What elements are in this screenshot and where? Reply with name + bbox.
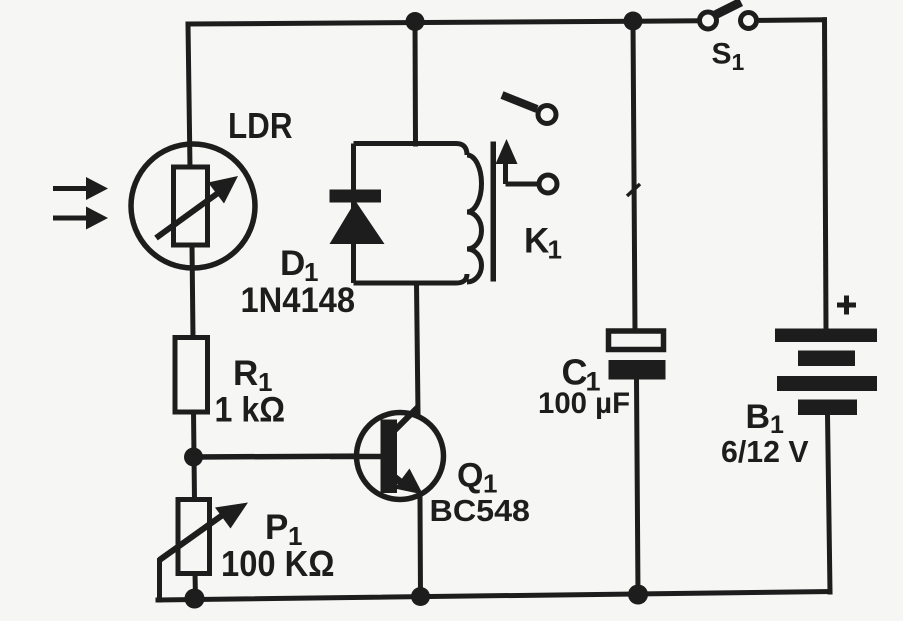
LDR body rect xyxy=(174,167,208,245)
relay K1 core bar xyxy=(491,142,497,282)
wire R1 to P1 xyxy=(194,411,195,500)
svg-text:B: B xyxy=(746,398,771,436)
node bottom rail / emitter xyxy=(411,587,430,606)
node top rail / relay branch xyxy=(406,12,425,31)
node top rail / C1 branch xyxy=(624,12,643,31)
wire C1 branch lower xyxy=(637,379,639,595)
wire bottom rail xyxy=(158,592,830,601)
P1 wiper tail wire xyxy=(160,558,163,600)
light arrow lower xyxy=(53,207,108,230)
D1 cathode bar xyxy=(330,190,382,203)
wire box left (diode branch) xyxy=(351,144,356,284)
relay contact circle upper xyxy=(538,106,556,124)
plus sign xyxy=(837,303,856,308)
switch S1 xyxy=(700,2,757,75)
wire P1 to bottom rail xyxy=(193,573,199,598)
tick mark on C1 wire xyxy=(627,184,640,196)
emitter arrowhead xyxy=(395,469,424,495)
svg-text:S: S xyxy=(712,38,732,71)
svg-text:1: 1 xyxy=(548,235,562,265)
svg-text:6/12 V: 6/12 V xyxy=(721,434,809,469)
potentiometer P1 xyxy=(160,500,335,601)
svg-text:Q: Q xyxy=(457,457,483,495)
P1 diagonal arrow xyxy=(160,514,225,560)
svg-text:100 KΩ: 100 KΩ xyxy=(221,543,335,584)
light arrow upper xyxy=(53,177,108,200)
svg-text:100 µF: 100 µF xyxy=(538,387,630,420)
wire transistor emitter to bottom rail xyxy=(418,499,424,597)
svg-text:BC548: BC548 xyxy=(430,493,531,528)
emitter lead xyxy=(393,476,408,488)
svg-text:D: D xyxy=(280,244,305,283)
svg-text:R: R xyxy=(233,354,258,393)
S1 lever xyxy=(713,2,741,16)
wire right side lower (battery to bottom rail) xyxy=(828,414,831,592)
wire left side top (rail to LDR) xyxy=(188,24,190,168)
svg-text:LDR: LDR xyxy=(228,105,293,146)
wire top rail left segment xyxy=(188,21,700,24)
base bar xyxy=(381,420,398,494)
transistor Q1 xyxy=(330,407,530,528)
wire relay box to transistor collector xyxy=(417,283,419,413)
LDR circle xyxy=(131,144,255,268)
svg-text:1 kΩ: 1 kΩ xyxy=(215,391,286,430)
node bottom rail / P1 xyxy=(185,589,205,609)
wire LDR to R1 xyxy=(192,245,193,338)
LDR xyxy=(131,105,293,268)
wire right side upper (to battery) xyxy=(825,20,827,329)
relay contact circle lower xyxy=(539,175,557,193)
resistor R1 xyxy=(175,338,285,430)
wire box top xyxy=(354,144,468,156)
D1 triangle xyxy=(330,201,385,244)
LDR diagonal arrow xyxy=(156,193,218,238)
wire top rail right segment xyxy=(756,17,825,23)
wire base xyxy=(194,456,391,457)
capacitor C1 xyxy=(538,331,666,420)
wire box bottom xyxy=(354,274,468,283)
relay coil K1 xyxy=(467,155,482,282)
relay armature arrow xyxy=(496,139,539,184)
wire C1 branch upper xyxy=(633,21,635,331)
node bottom rail / C1 xyxy=(628,585,648,605)
relay moving contact lever xyxy=(502,95,537,109)
svg-text:K: K xyxy=(524,222,549,261)
svg-text:1N4148: 1N4148 xyxy=(241,281,356,320)
svg-text:P: P xyxy=(265,508,288,547)
battery B1 xyxy=(721,296,877,470)
wire relay branch top (rail to box) xyxy=(413,22,419,145)
svg-text:1: 1 xyxy=(732,49,745,75)
diode D1 with relay coil box xyxy=(241,144,482,321)
base wire inside xyxy=(330,454,390,460)
collector lead xyxy=(393,407,418,432)
node A (R1/P1/base junction) xyxy=(184,448,203,467)
